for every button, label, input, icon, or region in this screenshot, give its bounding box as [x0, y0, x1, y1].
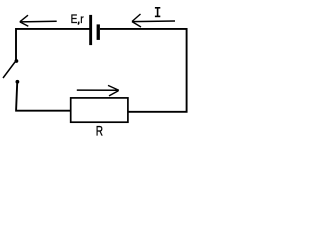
- current direction arrow (left of battery, pointing left): [20, 15, 57, 26]
- switch S: bottom contact node: [16, 80, 20, 84]
- svg-text:R: R: [96, 123, 103, 139]
- resistor R (rectangle body): [71, 98, 128, 122]
- current arrow I (right of battery, pointing left): [132, 14, 175, 27]
- switch S: top contact node: [15, 59, 19, 63]
- wire: from battery negative plate right, down the right side, and left to resistor right terminal: [100, 29, 187, 112]
- comma of E,r label (drawn solid): [77, 22, 80, 25]
- label I (current), drawn as serif capital I: [155, 8, 160, 17]
- current direction arrow above resistor (pointing right): [77, 85, 119, 96]
- battery E,r short (negative) plate: [97, 24, 100, 40]
- wire: from switch bottom contact down and right to resistor left terminal: [16, 83, 70, 111]
- battery E,r long (positive) plate: [89, 15, 92, 45]
- svg-text:E,r: E,r: [71, 13, 84, 26]
- switch S: open blade: [3, 62, 15, 78]
- wire: top-left segment from switch top contact up and right to battery positive plate: [16, 29, 90, 60]
